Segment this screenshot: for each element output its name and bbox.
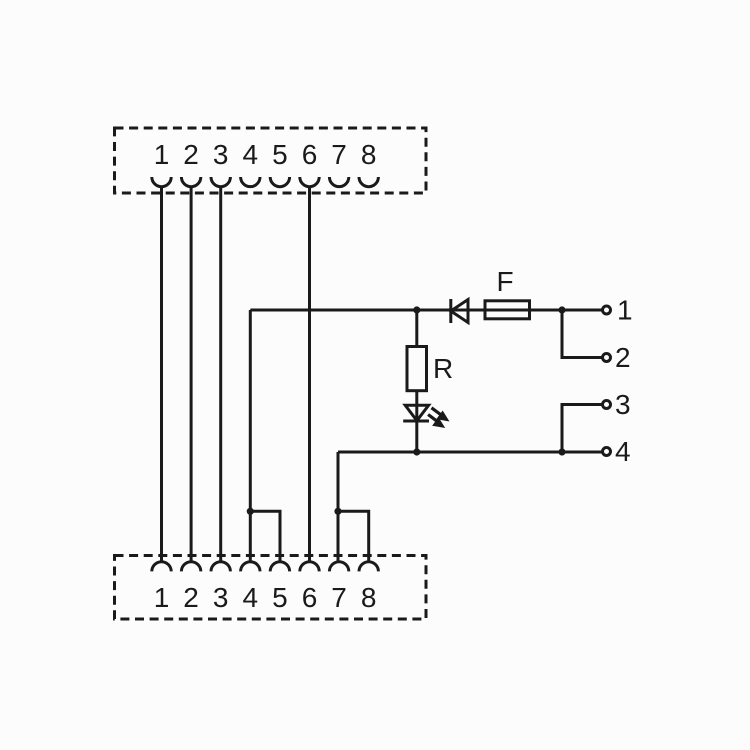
wire top pin 1 to bottom pin 1 (160, 187, 163, 562)
terminal 2 (603, 354, 611, 362)
svg-text:4: 4 (615, 436, 631, 467)
svg-text:1: 1 (154, 582, 170, 613)
wire top pin 6 to bottom pin 6 (308, 187, 311, 562)
terminal 1 (603, 306, 611, 314)
wire top pin 2 to bottom pin 2 (190, 187, 193, 562)
wire lower horizontal net to terminal 4 (338, 451, 602, 454)
junction dot pin7/pin8 branch (334, 508, 341, 515)
wire to terminal 2 (562, 310, 602, 358)
svg-text:1: 1 (617, 295, 633, 326)
svg-text:2: 2 (183, 582, 199, 613)
svg-text:1: 1 (154, 139, 170, 170)
svg-text:3: 3 (213, 139, 229, 170)
top connector module box (115, 128, 427, 193)
svg-text:7: 7 (331, 582, 347, 613)
top contact 8 (359, 177, 378, 187)
diode (449, 299, 452, 323)
bottom contact 2 (181, 562, 200, 572)
svg-text:4: 4 (243, 139, 259, 170)
svg-text:5: 5 (272, 139, 288, 170)
junction dot terminal 1/2 (558, 306, 565, 313)
LED (405, 405, 428, 420)
top pin numbers 1-8 (154, 139, 377, 170)
resistor R (407, 347, 427, 391)
junction dot pin4/pin5 branch (247, 508, 254, 515)
svg-text:8: 8 (361, 139, 377, 170)
bottom contact 4 (241, 562, 260, 572)
junction dot terminal 3/4 (558, 448, 565, 455)
top contact 6 (300, 177, 319, 187)
junction dot LED bottom (413, 448, 420, 455)
bottom contact 3 (211, 562, 230, 572)
bottom contact 8 (359, 562, 378, 572)
wire branch to bottom pin 8 (338, 511, 369, 562)
svg-text:R: R (433, 353, 453, 384)
top contact 2 (181, 177, 200, 187)
top contact 7 (329, 177, 348, 187)
svg-text:F: F (496, 266, 513, 297)
bottom contact 1 (152, 562, 171, 572)
svg-text:6: 6 (302, 139, 318, 170)
wire resistor branch vertical (415, 310, 418, 452)
wire top pin 3 to bottom pin 3 (219, 187, 222, 562)
svg-text:3: 3 (615, 389, 631, 420)
junction dot resistor top (413, 306, 420, 313)
terminal 3 (603, 401, 611, 409)
svg-text:6: 6 (302, 582, 318, 613)
wire vertical from corner down to bottom pin 4 (249, 310, 252, 562)
svg-text:5: 5 (272, 582, 288, 613)
svg-text:3: 3 (213, 582, 229, 613)
wire to terminal 3 (562, 405, 602, 453)
bottom contact 6 (300, 562, 319, 572)
wire branch to bottom pin 5 (250, 511, 280, 562)
bottom contact 7 (329, 562, 348, 572)
svg-text:7: 7 (331, 139, 347, 170)
wire main horizontal net to terminal 1 (250, 309, 602, 312)
svg-text:4: 4 (243, 582, 259, 613)
LED arrow 2 (428, 415, 444, 428)
top contact 5 (270, 177, 289, 187)
svg-text:2: 2 (615, 342, 631, 373)
top contact 4 (241, 177, 260, 187)
fuse F (485, 301, 530, 319)
terminal 4 (603, 448, 611, 456)
svg-text:2: 2 (183, 139, 199, 170)
bottom pin numbers 1-8 (154, 582, 377, 613)
svg-text:8: 8 (361, 582, 377, 613)
top contact 1 (152, 177, 171, 187)
bottom connector module box (115, 556, 427, 620)
wire vertical from lower corner to bottom pin 7 (337, 452, 340, 562)
bottom contact 5 (270, 562, 289, 572)
LED arrow 1 (432, 408, 449, 421)
top contact 3 (211, 177, 230, 187)
